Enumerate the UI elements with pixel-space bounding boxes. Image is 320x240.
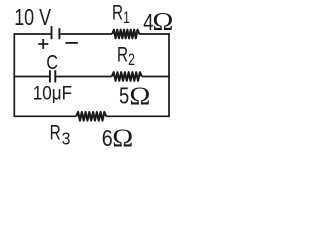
battery minus sign bbox=[66, 42, 78, 44]
svg-text:5: 5 bbox=[119, 84, 129, 109]
wire top rail left (to battery) bbox=[14, 33, 51, 35]
svg-text:Ω: Ω bbox=[152, 7, 173, 35]
svg-text:10μF: 10μF bbox=[33, 82, 72, 103]
capacitor C right plate bbox=[54, 70, 56, 82]
resistor R2 zigzag bbox=[112, 72, 142, 81]
svg-text:3: 3 bbox=[62, 128, 71, 148]
wire top rail right (R1 to right edge) bbox=[139, 33, 170, 35]
svg-text:C: C bbox=[46, 50, 58, 73]
battery B1 negative plate bbox=[58, 28, 60, 39]
capacitor C left plate bbox=[49, 70, 51, 82]
wire middle rail mid (capacitor to R2) bbox=[56, 76, 112, 78]
svg-text:Ω: Ω bbox=[112, 124, 133, 152]
svg-text:R2: R2 bbox=[117, 42, 135, 69]
wire middle rail left (to capacitor) bbox=[14, 76, 50, 78]
wire bottom rail left (to R3) bbox=[14, 115, 77, 117]
battery B1 positive plate bbox=[51, 26, 53, 39]
svg-text:R: R bbox=[50, 120, 61, 144]
wire top rail mid (battery to R1) bbox=[60, 33, 112, 35]
battery plus sign bbox=[38, 39, 48, 49]
resistor R3 zigzag bbox=[76, 112, 106, 121]
wire left edge bbox=[13, 33, 15, 116]
svg-text:10 V: 10 V bbox=[14, 5, 51, 31]
wire bottom rail right (R3 to right edge) bbox=[106, 115, 170, 117]
svg-text:R1: R1 bbox=[112, 0, 130, 27]
wire right edge bbox=[168, 33, 170, 116]
wire middle rail right (R2 to right edge) bbox=[142, 76, 170, 78]
svg-text:6: 6 bbox=[102, 124, 113, 151]
svg-text:Ω: Ω bbox=[129, 81, 150, 109]
resistor R1 zigzag bbox=[112, 30, 139, 39]
